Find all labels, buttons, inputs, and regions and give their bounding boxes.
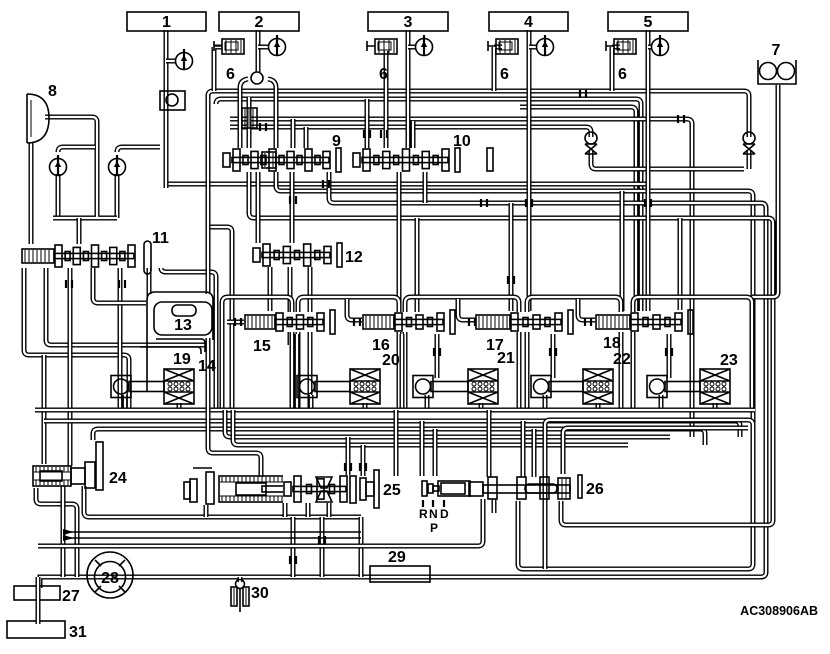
- svg-text:18: 18: [603, 335, 621, 352]
- solenoid 6c: [488, 39, 518, 83]
- wire sol6c drop: [494, 47, 502, 91]
- drawing number: [740, 604, 818, 618]
- wire stub check 2: [258, 45, 268, 50]
- pipe v11 down e: [93, 268, 146, 303]
- pipe ball stem 20: [309, 395, 314, 412]
- pipe below26 mid: [38, 499, 483, 546]
- box 5: [608, 12, 688, 31]
- pipe bus y127: [230, 127, 591, 137]
- svg-text:6: 6: [379, 66, 388, 83]
- pipe v25 feed d: [420, 421, 425, 476]
- pipe ball arc right: [268, 79, 276, 152]
- ball check right: [743, 132, 755, 154]
- pipe cell drop v15: [295, 334, 300, 412]
- filter 13 and housing 14: [140, 292, 216, 392]
- pipe v26 feed b: [521, 421, 526, 477]
- svg-text:N: N: [429, 507, 438, 521]
- check valve box2: [269, 35, 286, 56]
- pipe v17 feed: [509, 203, 514, 311]
- valve 17: [475, 310, 573, 354]
- pipe v12 bottom a: [268, 265, 273, 311]
- solenoid 23: [647, 352, 738, 404]
- pipe v9 top d: [304, 127, 309, 152]
- svg-text:6: 6: [618, 66, 627, 83]
- svg-text:6: 6: [500, 66, 509, 83]
- oil strainer 8: [27, 83, 57, 143]
- pipe below25 c: [359, 517, 364, 577]
- pipe bus y119: [230, 119, 692, 437]
- valve cell frame 1: [222, 297, 292, 410]
- pipe main bus y89: [208, 91, 749, 137]
- pipe v25 stub d: [327, 502, 332, 517]
- pipe sol stub 20: [363, 403, 368, 410]
- svg-text:11: 11: [152, 230, 169, 247]
- pipe feed v18 left: [578, 299, 596, 320]
- pipe feed v16 left: [347, 299, 363, 320]
- solenoid 6b: [367, 39, 397, 83]
- lube line pair: [63, 529, 361, 541]
- wire sol6a drop: [214, 47, 222, 91]
- solenoid 19: [111, 351, 194, 404]
- pipe v10 above b: [411, 121, 416, 150]
- pipe link y169: [591, 151, 749, 169]
- wire sol6b drop: [384, 51, 389, 150]
- svg-text:19: 19: [173, 351, 191, 368]
- pipe v26 feed a: [487, 410, 492, 477]
- valve cell frame 3: [405, 297, 519, 410]
- pipe cell drop v17a: [517, 334, 522, 412]
- pipe cell drop v16b: [435, 334, 440, 378]
- pipe v16 feed: [415, 218, 420, 314]
- pipe loop A: [545, 420, 753, 569]
- pipe v25 feed e: [433, 429, 438, 476]
- svg-text:3: 3: [404, 14, 413, 31]
- check valve box3: [416, 35, 433, 56]
- check valve box1: [176, 49, 193, 70]
- pipe item30 stub: [238, 577, 243, 582]
- pipe bus y191 to valve26 loop: [276, 172, 753, 569]
- pipe manifold bar: [53, 213, 117, 218]
- svg-text:20: 20: [382, 352, 400, 369]
- svg-text:15: 15: [253, 338, 271, 355]
- solenoid 21: [413, 350, 515, 404]
- solenoid 20: [297, 352, 400, 404]
- pipe below25 b: [320, 517, 325, 577]
- valve 12: [252, 243, 363, 267]
- pipe y227 stub: [206, 227, 232, 410]
- svg-text:P: P: [430, 521, 438, 535]
- wire stub check 5: [648, 45, 652, 50]
- relief valve below box1: [160, 91, 185, 110]
- pipe ball stem 21: [425, 395, 430, 412]
- pipe v25 stub a: [204, 505, 209, 517]
- manual valve 26: [419, 475, 604, 535]
- valve cell frame 4: [527, 297, 621, 410]
- pipe bus y437: [225, 410, 670, 437]
- svg-text:21: 21: [497, 350, 515, 367]
- pipe manifold left: [58, 147, 95, 218]
- pipe bell drop: [29, 143, 34, 246]
- pipe sol stub 19: [177, 403, 182, 410]
- relief 30: [231, 580, 269, 613]
- pipe v9 below d: [290, 172, 295, 245]
- pipe sol stub 22: [596, 403, 601, 410]
- pipe stem to pan: [36, 577, 41, 621]
- pipe below24 b: [61, 486, 66, 577]
- pipe feed v15 left: [227, 320, 245, 325]
- pipe item7 stem: [752, 85, 778, 297]
- pipe v11 down d: [118, 268, 123, 410]
- pipe feed v17 left: [458, 299, 476, 320]
- svg-text:8: 8: [48, 83, 57, 100]
- solenoid 22: [531, 351, 631, 404]
- pipe bell top: [45, 117, 97, 213]
- svg-text:R: R: [419, 507, 428, 521]
- check valve box4: [537, 35, 554, 56]
- pipe v11 down a: [24, 268, 129, 410]
- pipe bus y429: [93, 429, 705, 445]
- pipe cell drop v16a: [400, 334, 405, 412]
- box 1: [127, 12, 206, 31]
- svg-text:6: 6: [226, 66, 235, 83]
- pipe v25 feed b: [361, 445, 366, 476]
- svg-text:2: 2: [255, 14, 264, 31]
- pipe v25 feed c: [394, 410, 399, 476]
- svg-text:29: 29: [388, 549, 406, 566]
- oil pump 28: [87, 552, 133, 598]
- valve 16: [362, 310, 455, 354]
- pipe below24 c: [84, 486, 361, 517]
- pipe bus y105: [520, 107, 636, 311]
- tee 27: [14, 577, 80, 621]
- pipe ball stem 23: [659, 395, 664, 412]
- check valve left a: [50, 155, 67, 176]
- pipe sol stub 23: [713, 403, 718, 410]
- valve cell frame 2: [298, 297, 399, 410]
- valve 10: [352, 133, 493, 172]
- pan 31: [7, 616, 87, 641]
- svg-text:4: 4: [524, 14, 533, 31]
- pipe housing drop: [147, 268, 152, 300]
- pipe from box 3: [406, 30, 411, 148]
- pipe v18 feed b: [620, 191, 625, 311]
- valve 15: [244, 310, 335, 355]
- pipe from box 2: [256, 30, 261, 72]
- pipe below25 a: [291, 517, 296, 577]
- wire stub check 3: [408, 45, 416, 50]
- pipe left mid L: [42, 355, 47, 464]
- regulator valve 25: [184, 468, 401, 508]
- pipe v10 below c: [423, 172, 428, 203]
- pipe v11 down f: [161, 268, 216, 410]
- pipe v9 top c: [291, 119, 296, 152]
- pipe cell drop v18b: [667, 334, 672, 378]
- valve 18: [595, 310, 693, 352]
- pipe sol9 drop: [247, 97, 252, 148]
- pipe v12 bottom b: [288, 265, 293, 345]
- wire sol6d drop: [612, 47, 620, 91]
- svg-text:28: 28: [101, 570, 119, 587]
- svg-text:D: D: [440, 507, 449, 521]
- pipe v25 stub b: [283, 502, 288, 517]
- svg-text:10: 10: [453, 133, 471, 150]
- svg-text:30: 30: [251, 585, 269, 602]
- svg-text:13: 13: [174, 317, 192, 334]
- svg-text:26: 26: [586, 481, 604, 498]
- svg-text:5: 5: [644, 14, 653, 31]
- svg-text:9: 9: [332, 133, 341, 150]
- pipe below24 a: [36, 488, 77, 577]
- pipe bus y445: [233, 410, 628, 445]
- pipe v25 stub c: [306, 502, 311, 517]
- pipe v18 top right: [678, 218, 683, 310]
- pipe sol stub 21: [479, 403, 484, 410]
- pipe v11 down c: [68, 268, 73, 466]
- svg-text:31: 31: [69, 624, 87, 641]
- svg-text:23: 23: [720, 352, 738, 369]
- wire stub check 4: [529, 45, 537, 50]
- manual valve 11: [21, 230, 169, 274]
- wire stub check 1: [166, 59, 176, 64]
- svg-text:14: 14: [198, 358, 216, 375]
- accumulator 7: [758, 42, 796, 84]
- pipe y461 feed: [208, 94, 261, 477]
- pipe bus y188: [166, 182, 648, 187]
- pipe main bus y410: [35, 408, 755, 413]
- pipe v26 feed d: [563, 428, 748, 474]
- valve 24: [33, 442, 127, 490]
- valve 9: [222, 133, 341, 172]
- pipe v26 stub b: [543, 499, 548, 513]
- pipe v25 feed a: [346, 437, 351, 476]
- solenoid feed box valve9: [242, 108, 257, 128]
- pipe bus y203 to bottom bus: [40, 172, 766, 588]
- pipe v10 below b: [397, 172, 402, 311]
- pipe from box 4: [527, 30, 532, 311]
- pipe bus y421: [44, 421, 740, 437]
- pipe bus y218 to valve26 loop B: [249, 172, 773, 525]
- pipe v9 below b: [256, 172, 261, 245]
- svg-text:24: 24: [109, 470, 127, 487]
- svg-text:22: 22: [613, 351, 631, 368]
- solenoid 6d: [606, 39, 636, 83]
- pipe ball arc left: [240, 79, 248, 152]
- pipe from box 5: [646, 30, 651, 311]
- pipe bus y97: [216, 99, 641, 311]
- solenoid 6a: [214, 39, 244, 83]
- pipe v11 down b: [46, 268, 206, 345]
- orifice 29: [370, 549, 430, 582]
- pipe manifold out: [77, 218, 82, 246]
- ball check left: [585, 132, 597, 154]
- ball junction box2: [251, 72, 263, 84]
- pipe v12 bottom c: [308, 265, 313, 410]
- pipe v26 stub a: [492, 499, 497, 513]
- pipe v10 above: [365, 99, 370, 150]
- check valve left b: [109, 155, 126, 176]
- pipe ball stem 19: [123, 395, 128, 410]
- pipe ball stem 22: [543, 395, 548, 412]
- pipe from box 1: [164, 30, 169, 188]
- svg-text:12: 12: [345, 249, 363, 266]
- pipe manifold right: [117, 147, 160, 218]
- orifice ticks: [66, 90, 684, 564]
- valve cell frame 5: [633, 297, 752, 410]
- pipe v26 feed c: [532, 429, 537, 477]
- svg-text:25: 25: [383, 482, 401, 499]
- check valve box5: [652, 35, 669, 56]
- svg-text:AC308906AB: AC308906AB: [740, 604, 818, 618]
- box 3: [368, 12, 448, 31]
- box 4: [489, 12, 568, 31]
- svg-text:27: 27: [62, 588, 80, 605]
- svg-text:1: 1: [162, 14, 171, 31]
- pipe cell drop v17b: [551, 334, 556, 378]
- svg-text:7: 7: [772, 42, 781, 59]
- box 2: [219, 12, 299, 31]
